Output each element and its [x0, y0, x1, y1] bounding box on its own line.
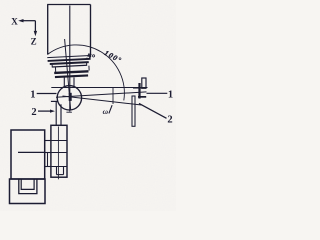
long horizontal line through wheel top — [51, 87, 147, 89]
flange bar E dark — [54, 70, 88, 74]
column centerline — [57, 127, 59, 180]
base — [10, 179, 46, 204]
svg-text:2: 2 — [31, 107, 36, 118]
flange bar F dark — [55, 74, 88, 78]
flange rect1 sides — [51, 65, 53, 68]
axis line B tilted — [63, 96, 142, 105]
base groove inner — [21, 179, 34, 189]
right assembly: horizontal bar 2 — [138, 96, 146, 98]
svg-text:1: 1 — [168, 90, 173, 101]
svg-text:Z: Z — [31, 36, 37, 46]
big box inner line — [18, 151, 45, 153]
right assembly: small rect — [142, 78, 146, 88]
spindle neck — [63, 77, 65, 86]
right assembly: horizontal bar 1 — [133, 87, 146, 88]
flange rect2 sides — [54, 67, 56, 72]
flange bar A dark — [48, 58, 91, 62]
axis line A — [56, 92, 147, 97]
right assembly: thick vertical bar — [138, 83, 140, 99]
svg-text:X: X — [11, 16, 18, 26]
centerline end tick — [66, 111, 72, 113]
tool slide box — [51, 125, 67, 177]
leader 1 right — [147, 92, 168, 94]
flange bar B dark — [50, 61, 89, 65]
tick between lines — [112, 88, 114, 104]
axis Z arrow — [34, 21, 37, 37]
flange top line — [47, 55, 90, 57]
slide dividers — [51, 140, 67, 142]
spindle flange stack (tilted) — [47, 55, 91, 78]
right assembly: thin plate — [132, 96, 135, 126]
wheel center knot — [69, 93, 72, 101]
grinding wheel circle — [57, 86, 81, 110]
svg-text:2: 2 — [167, 114, 172, 125]
lug lines — [45, 140, 51, 142]
tilted spindle axis (5 deg) — [65, 39, 71, 110]
big box — [11, 130, 45, 179]
base groove outer — [19, 179, 37, 194]
lug side — [47, 153, 49, 167]
flange line C — [52, 65, 86, 67]
svg-text:1: 1 — [30, 89, 35, 100]
100 deg swing arc — [48, 45, 125, 100]
column stub — [51, 100, 58, 102]
column below wheel — [55, 101, 57, 125]
leader 2 right — [139, 103, 167, 118]
foot notch — [56, 167, 58, 175]
head column rectangle — [47, 5, 90, 58]
svg-text:ω: ω — [103, 107, 109, 116]
vertical centerline — [69, 6, 71, 112]
axis X arrow — [18, 19, 35, 22]
